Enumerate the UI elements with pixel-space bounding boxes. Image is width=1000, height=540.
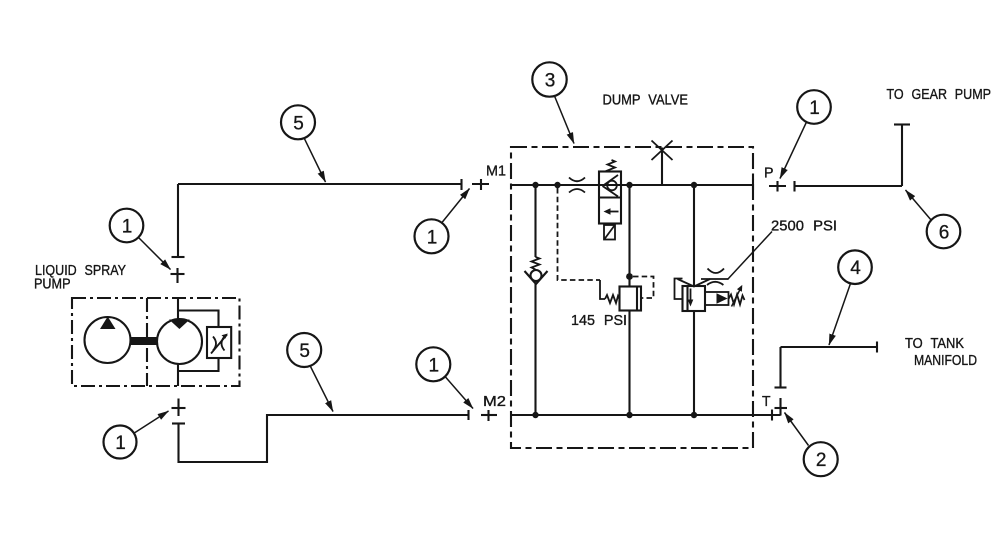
label P (764, 166, 774, 182)
leader callout 1 lower pump port (134, 411, 169, 434)
pump element right circle (157, 319, 202, 364)
wire dump valve top line (511, 184, 753, 186)
callout circle 5 top (281, 105, 315, 139)
bypass wire top (178, 311, 219, 328)
pump enclosure divider (146, 298, 148, 386)
wire P to gear pump (795, 181, 903, 192)
solenoid valve flow arrow (604, 208, 619, 215)
callout circle 6 (927, 215, 961, 249)
relief valve 2500 PSI left bracket (675, 279, 683, 300)
leader callout 3 (555, 96, 575, 144)
pump element left circle (85, 317, 131, 363)
svg-text:145 PSI: 145 PSI (571, 313, 627, 329)
relief valve 2500 PSI right box (705, 292, 729, 305)
pump element right triangle (169, 320, 190, 330)
callout number 1 P (809, 98, 820, 119)
callout number 6 (939, 223, 950, 244)
callout number 1 M1 (427, 227, 438, 248)
pump element left triangle (100, 317, 116, 330)
port M1 line end tick (460, 179, 462, 190)
callout circle 1 M2 (416, 347, 450, 381)
svg-text:P: P (764, 166, 774, 182)
wire right branch (693, 185, 695, 415)
liquid spray pump enclosure (72, 298, 240, 386)
svg-text:3: 3 (545, 71, 556, 92)
svg-text:T: T (762, 394, 771, 410)
relief valve 145 PSI sense line dashed (633, 277, 654, 299)
svg-text:5: 5 (299, 341, 310, 362)
relief valve 2500 PSI top edge (701, 278, 729, 280)
check valve ball (531, 270, 542, 281)
flow control arrow (211, 334, 228, 354)
svg-text:1: 1 (122, 217, 133, 238)
callout circle 2 (804, 442, 838, 476)
check valve seat (525, 271, 548, 284)
disconnect fitting lower pump port (172, 399, 186, 417)
plugged port branch (661, 148, 663, 186)
label dump valve (603, 93, 689, 109)
pilot elbow to relief spring (600, 280, 605, 299)
relief valve 2500 PSI spring (729, 295, 745, 305)
svg-text:5: 5 (293, 113, 304, 134)
svg-text:PUMP: PUMP (34, 277, 71, 293)
wire center branch (628, 185, 630, 415)
svg-text:2: 2 (816, 450, 827, 471)
junction dots top line (532, 182, 697, 188)
wire M1 upper line (178, 183, 461, 185)
svg-text:6: 6 (939, 223, 950, 244)
svg-text:DUMP VALVE: DUMP VALVE (603, 93, 689, 109)
wire lower pump to M2 run (172, 415, 468, 462)
svg-text:4: 4 (850, 258, 861, 279)
relief valve 145 PSI body (620, 287, 642, 311)
orifice on top line (569, 178, 585, 193)
callout circle 1 lower pump port (104, 426, 137, 459)
callout number 4 (850, 258, 861, 279)
label 145 PSI (571, 313, 627, 329)
relief valve 2500 PSI poppet triangle (717, 293, 728, 304)
svg-text:1: 1 (115, 433, 126, 454)
svg-text:TO GEAR PUMP: TO GEAR PUMP (887, 87, 992, 103)
solenoid valve spring top (608, 160, 616, 172)
pump drive shaft (131, 337, 158, 345)
wire vertical drop to pump (172, 184, 185, 257)
wire to gear pump riser (894, 125, 910, 187)
callout circle 5 bottom (287, 333, 321, 367)
disconnect fitting M1 (472, 179, 489, 190)
callout number 1 upper pump port (122, 217, 133, 238)
leader callout 1 upper pump port (139, 238, 171, 270)
dump valve enclosure (511, 147, 753, 448)
check valve spring (532, 257, 540, 270)
pilot line dashed from top line (558, 188, 601, 280)
relief valve 2500 PSI arrow (688, 289, 694, 307)
disconnect fitting upper pump port (171, 268, 185, 283)
solenoid valve check poppet (603, 175, 619, 197)
svg-text:M1: M1 (486, 164, 506, 180)
callout circle 1 upper pump port (110, 209, 144, 243)
plugged port X (652, 141, 673, 161)
wire to tank manifold (775, 342, 878, 388)
callout circle 1 P (797, 90, 831, 124)
label liquid spray pump (34, 263, 126, 293)
disconnect fitting M2 (481, 410, 497, 421)
relief valve 2500 PSI seat (678, 279, 711, 287)
leader callout 4 (829, 284, 851, 346)
svg-text:MANIFOLD: MANIFOLD (914, 353, 977, 369)
leader callout 6 (906, 190, 932, 221)
relief valve 2500 PSI orifice arcs (707, 269, 724, 286)
wire check valve branch (534, 185, 536, 415)
junction dot relief pilot (626, 273, 633, 280)
svg-text:TO TANK: TO TANK (905, 336, 964, 352)
callout number 5 bottom (299, 341, 310, 362)
leader callout 5 top (305, 139, 326, 182)
label M2 (483, 394, 506, 410)
pump port wire bottom (177, 364, 179, 387)
pump port wire top (177, 299, 179, 320)
relief valve 2500 PSI adjust arrow (732, 285, 743, 307)
label to gear pump (887, 87, 992, 103)
svg-text:1: 1 (809, 98, 820, 119)
solenoid valve body (599, 172, 621, 224)
relief valve 145 PSI spring (605, 295, 620, 303)
label to tank manifold (905, 336, 977, 369)
callout number 1 lower pump port (115, 433, 126, 454)
leader callout 1 M1 (442, 189, 470, 223)
port M2 line end tick (467, 410, 469, 420)
svg-text:M2: M2 (483, 394, 506, 410)
bypass wire bottom (178, 358, 219, 371)
callout circle 1 M1 (415, 219, 449, 253)
callout number 5 top (293, 113, 304, 134)
svg-text:2500 PSI: 2500 PSI (771, 219, 837, 235)
leader 2500 PSI label (728, 232, 773, 280)
leader callout 1 P (780, 122, 807, 179)
label T (762, 394, 771, 410)
callout circle 4 (838, 250, 872, 284)
disconnect fitting T (775, 398, 788, 416)
svg-text:1: 1 (427, 227, 438, 248)
wire dump valve bottom line (511, 414, 753, 416)
leader callout 2 (785, 413, 809, 446)
wire T port stub (753, 410, 781, 421)
port P box edge tick (752, 179, 754, 190)
relief valve 2500 PSI body (683, 286, 706, 311)
label M1 (486, 164, 506, 180)
solenoid actuator box (604, 225, 615, 240)
flow control valve box (207, 327, 231, 358)
junction dots bottom line (532, 412, 697, 418)
callout number 1 M2 (429, 355, 440, 376)
leader callout 1 M2 (446, 377, 474, 409)
label 2500 PSI (771, 219, 837, 235)
leader callout 5 bottom (311, 367, 334, 412)
callout circle 3 (532, 62, 566, 96)
svg-text:1: 1 (429, 355, 440, 376)
flow control orifice arcs (213, 337, 225, 351)
callout number 2 (816, 450, 827, 471)
disconnect fitting P (769, 181, 786, 192)
callout number 3 (545, 71, 556, 92)
